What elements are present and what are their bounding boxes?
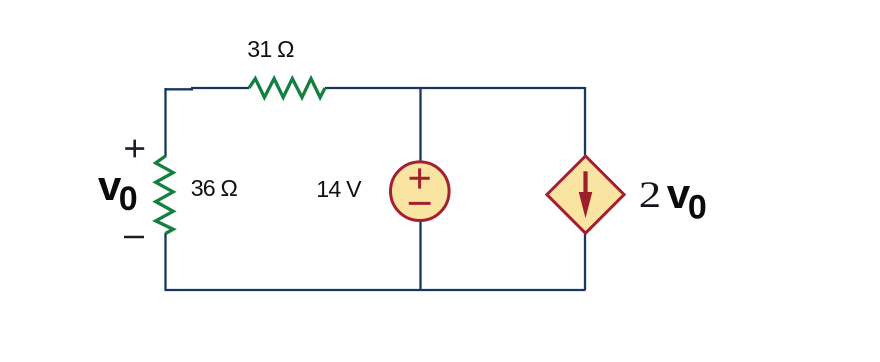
- wire middle vertical upper: [419, 88, 421, 162]
- svg-text:0: 0: [119, 180, 138, 218]
- svg-text:14 V: 14 V: [316, 176, 362, 202]
- wire top-left segment: [166, 88, 194, 90]
- wire bottom: [165, 289, 586, 291]
- resistor R 36ohm (vertical zigzag): [156, 156, 174, 234]
- svg-text:31 Ω: 31 Ω: [247, 36, 294, 62]
- plus polarity sign: [125, 140, 144, 158]
- minus polarity sign: [124, 236, 144, 239]
- wire right vertical lower: [584, 234, 586, 290]
- wire top (left node to resistor): [191, 87, 249, 89]
- wire middle vertical lower: [419, 221, 421, 290]
- voltage source V1 14V (circle): [391, 162, 450, 221]
- svg-text:0: 0: [688, 188, 707, 226]
- svg-text:36 Ω: 36 Ω: [191, 175, 238, 201]
- svg-text:2: 2: [639, 175, 661, 216]
- resistor R 31ohm (horizontal zigzag): [249, 79, 325, 98]
- wire left vertical upper: [164, 88, 166, 157]
- voltage source plus mark: [410, 168, 430, 188]
- wire right vertical upper: [584, 87, 586, 156]
- current source arrow: [579, 171, 593, 218]
- wire top (resistor to top-right corner): [325, 87, 585, 89]
- voltage source minus mark: [409, 202, 431, 205]
- dependent current source (diamond): [547, 156, 624, 233]
- wire left vertical lower: [164, 233, 166, 290]
